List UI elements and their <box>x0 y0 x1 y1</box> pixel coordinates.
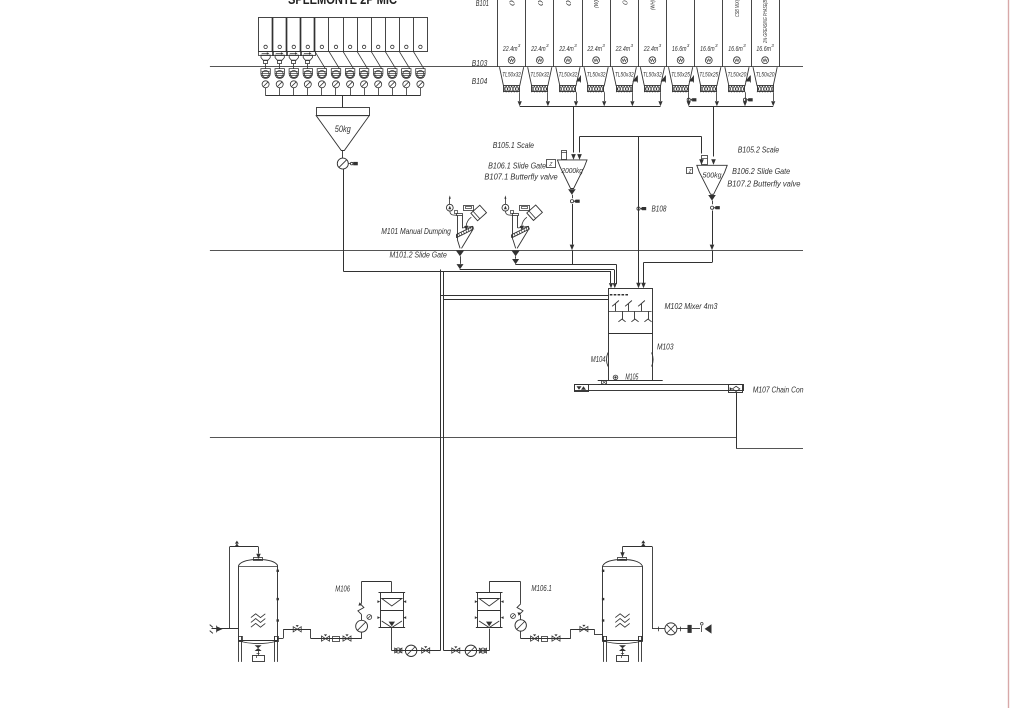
svg-text:TL50x20: TL50x20 <box>756 72 775 79</box>
svg-text:3: 3 <box>602 43 605 48</box>
svg-text:3: 3 <box>574 43 577 48</box>
svg-text:B108: B108 <box>652 205 667 214</box>
svg-text:B106.1 Slide Gate: B106.1 Slide Gate <box>488 160 546 170</box>
svg-text:22.4m: 22.4m <box>587 46 602 53</box>
svg-text:3: 3 <box>743 43 746 48</box>
svg-text:M106.1: M106.1 <box>531 583 552 593</box>
svg-text:B107.2 Butterfly valve: B107.2 Butterfly valve <box>727 178 800 188</box>
svg-text:16.6m: 16.6m <box>756 46 771 53</box>
svg-text:3: 3 <box>687 43 690 48</box>
svg-text:(WH): (WH) <box>650 0 656 10</box>
svg-text:B105.1 Scale: B105.1 Scale <box>493 140 534 150</box>
svg-text:TL50x32: TL50x32 <box>587 72 606 79</box>
svg-text:B104: B104 <box>472 77 488 86</box>
svg-text:SPLEMONTE 2P MIC: SPLEMONTE 2P MIC <box>288 0 397 7</box>
svg-text:B106.2 Slide Gate: B106.2 Slide Gate <box>732 166 790 176</box>
svg-text:B101: B101 <box>476 0 489 8</box>
svg-text:(): () <box>566 0 572 6</box>
svg-text:(): () <box>538 0 544 6</box>
svg-text:22.4m: 22.4m <box>530 46 545 53</box>
svg-text:50kg: 50kg <box>335 124 351 134</box>
svg-text:(): () <box>510 0 516 6</box>
svg-text:B107.1 Butterfly valve: B107.1 Butterfly valve <box>484 172 557 182</box>
svg-text:M102 Mixer 4m3: M102 Mixer 4m3 <box>665 301 718 311</box>
svg-text:16.6m: 16.6m <box>672 46 687 53</box>
svg-text:(): () <box>622 0 628 5</box>
svg-text:M101 Manual Dumping: M101 Manual Dumping <box>381 226 451 236</box>
svg-text:3: 3 <box>771 43 774 48</box>
svg-text:TL50x20: TL50x20 <box>728 72 747 79</box>
svg-text:M107 Chain Con: M107 Chain Con <box>753 384 804 394</box>
svg-text:TL50x32: TL50x32 <box>502 72 521 79</box>
svg-text:TL50x32: TL50x32 <box>615 72 634 79</box>
svg-text:M104: M104 <box>591 354 606 364</box>
svg-text:22.4m: 22.4m <box>615 46 630 53</box>
svg-text:2000kg: 2000kg <box>561 166 584 175</box>
svg-text:TL50x32: TL50x32 <box>559 72 578 79</box>
svg-text:(W): (W) <box>594 0 600 8</box>
svg-text:TL50x25: TL50x25 <box>699 72 718 79</box>
svg-text:M106: M106 <box>335 583 350 593</box>
svg-text:B105.2 Scale: B105.2 Scale <box>738 145 779 155</box>
svg-text:TL50x32: TL50x32 <box>530 72 549 79</box>
svg-text:2% GREASING PHASE(B: 2% GREASING PHASE(B <box>763 0 769 44</box>
svg-text:M101.2 Slide Gate: M101.2 Slide Gate <box>390 250 447 260</box>
svg-text:3: 3 <box>546 43 549 48</box>
svg-text:22.4m: 22.4m <box>643 46 658 53</box>
svg-text:B103: B103 <box>472 59 488 68</box>
svg-text:M105: M105 <box>625 371 638 381</box>
svg-text:CSB MIX(: CSB MIX( <box>735 0 741 17</box>
svg-text:3: 3 <box>659 43 662 48</box>
svg-text:3: 3 <box>631 43 634 48</box>
svg-text:3: 3 <box>518 43 521 48</box>
svg-text:500kg: 500kg <box>703 170 723 179</box>
svg-text:Z: Z <box>549 162 553 168</box>
svg-text:16.6m: 16.6m <box>700 46 715 53</box>
svg-text:TL50x25: TL50x25 <box>671 72 690 79</box>
svg-text:22.4m: 22.4m <box>502 46 517 53</box>
svg-text:22.4m: 22.4m <box>558 46 573 53</box>
svg-text:M103: M103 <box>657 342 674 352</box>
svg-text:16.6m: 16.6m <box>728 46 743 53</box>
svg-text:TL50x32: TL50x32 <box>643 72 662 79</box>
svg-text:3: 3 <box>715 43 718 48</box>
